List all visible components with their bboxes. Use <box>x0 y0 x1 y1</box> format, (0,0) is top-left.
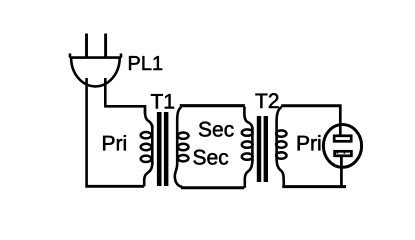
plug PL1 prong left <box>85 34 88 58</box>
wire middle box top <box>180 104 245 107</box>
label Sec (T2 secondary) <box>194 150 229 165</box>
wire plug left lead / left box left side <box>85 78 88 186</box>
wire left box bottom <box>85 185 144 188</box>
plug PL1 body top edge <box>70 54 121 58</box>
wire middle box bottom <box>181 186 244 189</box>
wire right box bottom <box>282 185 346 188</box>
wire plug right lead <box>104 78 107 106</box>
neon lamp I1 envelope <box>323 124 361 167</box>
transformer T2 secondary winding (middle box right side) <box>242 107 253 188</box>
wire neon lamp bottom lead <box>340 157 343 187</box>
wire right box right side upper <box>339 105 342 135</box>
label Sec (T1 secondary) <box>199 122 234 137</box>
neon lamp bottom electrode <box>335 151 352 156</box>
transformer T1 core bar left <box>157 112 162 186</box>
label T1 <box>151 94 174 108</box>
transformer T2 core bar left <box>257 116 261 182</box>
transformer T1 core bar right <box>164 112 169 186</box>
label PL1 <box>129 56 162 70</box>
transformer T1 secondary winding (middle box left side) <box>175 107 189 187</box>
label T2 <box>256 93 279 108</box>
neon lamp top electrode <box>334 136 351 142</box>
transformer T2 primary winding (right box left side) <box>276 107 286 187</box>
wire right box top <box>281 104 341 107</box>
label Pri (T1 primary) <box>103 135 126 150</box>
transformer T2 core bar right <box>264 116 268 182</box>
transformer T1 primary winding <box>141 112 153 186</box>
plug PL1 prong right <box>104 34 107 58</box>
wire left box top <box>104 106 145 114</box>
neon lamp bottom electrode ticks <box>337 152 344 154</box>
label Pri (T2 primary) <box>298 135 321 150</box>
plug PL1 body bowl <box>71 58 120 87</box>
